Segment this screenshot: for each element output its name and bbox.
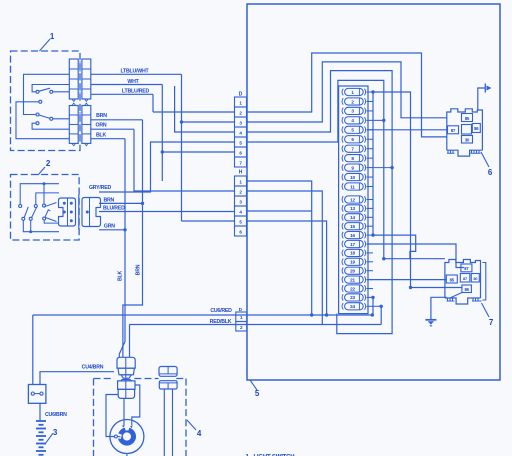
- svg-text:CU6/BRN: CU6/BRN: [45, 412, 67, 418]
- relay 7 pin 87 box: [461, 264, 472, 272]
- comp2 contact b1: [34, 205, 37, 208]
- comp2 blade c: [45, 210, 50, 217]
- svg-text:GRY/RED: GRY/RED: [89, 185, 111, 191]
- svg-text:15: 15: [350, 224, 355, 229]
- wire H2 drop right: [247, 191, 323, 325]
- svg-text:ORN: ORN: [96, 123, 107, 129]
- switch blade S1: [39, 88, 50, 91]
- wire cell4 loop under pins: [247, 71, 393, 334]
- coil divider: [125, 357, 127, 398]
- wire distributor down: [126, 454, 128, 456]
- connector pins 1-24: [342, 89, 343, 96]
- relay 7 outer bracket: [482, 263, 485, 301]
- relay 7 pin 85 box: [446, 275, 457, 283]
- relay 7 right box: [471, 274, 479, 283]
- dist connector lower divider: [167, 383, 169, 389]
- dist connector lower strip: [159, 382, 177, 384]
- distributor terminal: [114, 435, 117, 438]
- ground symbol relay7: [425, 319, 436, 321]
- svg-text:GRN: GRN: [104, 224, 115, 230]
- comp2 contact c2: [43, 217, 46, 220]
- svg-text:BLU/RED: BLU/RED: [103, 206, 125, 212]
- fuse terminal L: [31, 392, 34, 395]
- wire S2 to cell2: [53, 118, 70, 120]
- wire pin5 to relay6: [367, 129, 447, 131]
- comp2 plug divider: [67, 198, 69, 226]
- wire pin23 drop: [372, 297, 374, 315]
- switch contact S3: [36, 122, 39, 125]
- wire pin17 to relay7 87: [367, 244, 464, 268]
- svg-text:18: 18: [350, 251, 355, 256]
- coil neck upper: [121, 375, 131, 378]
- comp2 plug pin dot 3: [63, 211, 66, 214]
- wire LTBLU/RED: [91, 93, 153, 95]
- junction H5-CU6RED: [325, 313, 328, 316]
- wire S1 to cell4: [53, 91, 70, 93]
- wire pole to bottom bus: [16, 102, 69, 139]
- comp2 bottom junction: [29, 230, 32, 233]
- distributor tick 1: [122, 425, 125, 428]
- fuse box: [28, 385, 46, 404]
- dist connector upper strip: [159, 373, 177, 375]
- junction pin4 bus: [382, 119, 385, 122]
- comp2 socket divider: [89, 198, 91, 227]
- wire WHT: [91, 84, 163, 86]
- comp2 top bus 1: [20, 184, 59, 205]
- coil connector tier1: [117, 357, 135, 368]
- junction BRN join: [141, 202, 144, 205]
- ECU box 5 outline: [247, 4, 500, 380]
- wire GRY/RED: [99, 142, 235, 192]
- comp2 link wire 2: [44, 217, 56, 222]
- label 2 leader: [38, 167, 45, 175]
- switch contact S1a: [36, 90, 39, 93]
- wire dist connector down R: [172, 389, 174, 456]
- wire pin9 stub ext: [373, 167, 392, 169]
- connector strip D cells 1-7: [235, 97, 247, 107]
- svg-text:BRN: BRN: [136, 264, 142, 275]
- svg-text:WHT: WHT: [127, 79, 139, 85]
- distributor ring gap left: [117, 433, 122, 439]
- junction pin23-CU6RED: [371, 313, 374, 316]
- wire BLU/RED: [99, 211, 235, 213]
- distributor ring gap top: [125, 426, 130, 430]
- comp2 contact a1: [19, 205, 22, 208]
- relay 6 pin 30 box: [462, 136, 473, 144]
- svg-text:14: 14: [350, 215, 355, 220]
- relay 6 pin 85 box: [462, 114, 473, 122]
- junction pin23 bus: [371, 296, 374, 299]
- label 6 leader: [481, 152, 489, 167]
- wire S3 to cell3: [32, 123, 69, 129]
- svg-text:H: H: [239, 169, 243, 175]
- label 3 leader: [45, 433, 53, 444]
- fuse link: [34, 393, 40, 395]
- wire battery riser: [32, 315, 34, 385]
- relay 7 body outline: [445, 260, 481, 299]
- svg-text:24: 24: [350, 304, 355, 309]
- relay 7 foot right: [472, 298, 482, 301]
- label 5 leader: [250, 380, 257, 390]
- comp2 plug pin dot 1: [63, 202, 66, 205]
- distributor body: [110, 420, 144, 454]
- junction cell6 tap: [161, 150, 164, 153]
- svg-text:BLK: BLK: [118, 271, 124, 282]
- comp2 socket pin dot: [86, 211, 89, 214]
- wire ORN drop to H2: [134, 129, 235, 191]
- switch unit 1 dashed box: [11, 51, 81, 151]
- wire BRN lower: [99, 202, 143, 204]
- wire H1 drop right: [247, 181, 312, 315]
- label 1 leader: [40, 39, 51, 51]
- wire coil to distributor: [123, 398, 125, 425]
- switch contact S1b: [50, 90, 53, 93]
- svg-text:RED/BLK: RED/BLK: [210, 319, 232, 325]
- wire comp1 cell2 to switch2: [24, 74, 70, 114]
- relay 7 foot left: [447, 298, 455, 301]
- relay 6 pin 87 box: [448, 126, 459, 134]
- wire fuse to battery: [39, 403, 41, 421]
- comp2 link wire 1: [44, 203, 56, 207]
- wire BRN vertical: [123, 120, 143, 357]
- connector D12 cell1: [236, 312, 247, 322]
- label 7 leader: [482, 303, 490, 317]
- wire relay7 ground: [431, 297, 447, 319]
- wire drop to cell2: [152, 94, 154, 112]
- svg-text:BLK: BLK: [96, 133, 107, 139]
- dist connector upper divider: [167, 367, 169, 374]
- svg-text:19: 19: [350, 260, 355, 265]
- comp2 bottom bus: [23, 220, 59, 231]
- wire cell6 row: [162, 151, 234, 153]
- connector strip H cells 1-6: [235, 176, 247, 186]
- battery 3: [36, 420, 46, 422]
- wire RED/BLK drop: [129, 325, 131, 358]
- switch contact S2b: [50, 117, 53, 120]
- relay 6 foot left: [447, 150, 455, 153]
- wire pin24 stub ext: [373, 305, 381, 307]
- wire cell4 row: [175, 86, 235, 132]
- svg-text:22: 22: [350, 286, 355, 291]
- junction cell3 row: [180, 120, 183, 123]
- wire ORN: [91, 128, 134, 130]
- junction H1-CU6RED: [310, 313, 313, 316]
- wire cell3 row: [182, 121, 235, 123]
- relay 6 body outline: [447, 109, 483, 150]
- svg-text:BRN: BRN: [103, 197, 114, 203]
- comp2 contact c1: [43, 204, 46, 207]
- wire GRN: [99, 229, 125, 231]
- wire H5 row left: [182, 220, 235, 222]
- comp2 plug pin dot 4: [70, 211, 73, 214]
- svg-text:16: 16: [350, 233, 355, 238]
- svg-text:20: 20: [350, 269, 355, 274]
- wire pin21 to relay7 85: [367, 279, 447, 281]
- wire BRN upper: [91, 119, 143, 121]
- switch blade S2: [39, 115, 50, 118]
- wire 86 feed: [411, 287, 463, 289]
- distributor tick 2: [130, 426, 133, 429]
- pin column box: [339, 86, 368, 314]
- wire drop to H5: [181, 74, 183, 221]
- coil neck lower: [121, 379, 132, 381]
- svg-text:12: 12: [350, 197, 355, 202]
- wire CU6/RED row: [33, 314, 373, 316]
- wire relay6 ground riser: [478, 88, 486, 110]
- junction pin16 row: [371, 233, 374, 236]
- distributor cam ring: [118, 427, 136, 445]
- wire comp1 switch1 feed: [32, 85, 69, 92]
- comp2 blade a: [24, 207, 28, 218]
- wire pin1 bus down: [372, 92, 374, 235]
- junction GRN join: [123, 228, 126, 231]
- wire cell5 to relay7 row: [247, 80, 384, 258]
- switch contact S2a: [36, 113, 39, 116]
- svg-text:BRN: BRN: [96, 113, 107, 119]
- wire coil side loop: [132, 385, 140, 426]
- comp2 blade b: [32, 207, 37, 217]
- wire RED/BLK rise: [380, 306, 382, 324]
- wire BLK vertical: [119, 139, 125, 358]
- label 4 leader: [187, 420, 196, 430]
- wire coil left loop: [106, 395, 118, 437]
- wire H5 drop right: [247, 221, 327, 315]
- connector block 1B: [69, 106, 78, 144]
- relay 6 center box: [462, 125, 472, 135]
- comp2 bus junction: [43, 182, 46, 185]
- switch pole contact: [39, 100, 42, 103]
- comp2 mating face: [78, 195, 80, 230]
- relay 7 diagonal link: [450, 293, 462, 299]
- coil connector tier4: [118, 389, 134, 398]
- comp2 top bus 2: [36, 193, 59, 204]
- wire relay7 left feed: [384, 258, 445, 260]
- wire cell2 to relay6 pin30: [247, 53, 447, 137]
- wire cell3 to relay6 pin85: [247, 62, 447, 122]
- dist connector lower: [159, 381, 177, 389]
- dist connector upper: [159, 367, 177, 377]
- wire pin4 stub ext: [373, 119, 384, 121]
- wire pin16 step to relay7: [373, 235, 416, 259]
- coil connector tier3: [118, 381, 135, 390]
- wire RED/BLK row: [130, 324, 382, 326]
- wire drop WHT to H1: [161, 85, 163, 182]
- svg-text:17: 17: [350, 242, 355, 247]
- wire pin1 row to 86: [373, 92, 411, 288]
- ground arrowhead: [487, 86, 492, 91]
- distributor unit 4 dashed box: [94, 379, 187, 456]
- relay 6 pin 86 box: [472, 124, 480, 133]
- svg-text:10: 10: [350, 175, 355, 180]
- relay 6 foot right: [471, 150, 481, 153]
- svg-text:21: 21: [350, 277, 355, 282]
- svg-text:13: 13: [350, 206, 355, 211]
- distributor terminal arm: [117, 436, 120, 438]
- ground crossbar: [484, 84, 486, 93]
- svg-text:CU6/RED: CU6/RED: [210, 308, 232, 314]
- comp2 contact a2: [22, 217, 25, 220]
- wire BLK upper: [91, 138, 125, 140]
- connector block 1A: [69, 59, 78, 99]
- svg-text:CU4/BRN: CU4/BRN: [82, 364, 104, 370]
- comp2 socket body: [82, 198, 101, 227]
- svg-text:LTBLU/WHT: LTBLU/WHT: [120, 69, 149, 75]
- comp2 plug pin dot 2: [70, 202, 73, 205]
- junction pin24 bus: [380, 305, 383, 308]
- wire dist connector down L: [163, 389, 165, 456]
- coil connector tier2: [118, 368, 134, 375]
- relay 7 mid box: [460, 274, 470, 283]
- fuse terminal R: [40, 392, 43, 395]
- junction 86 row: [409, 286, 412, 289]
- junction pin1 bus: [371, 90, 374, 93]
- svg-text:LTBLU/RED: LTBLU/RED: [122, 89, 150, 95]
- comp2 plug body: [59, 198, 76, 226]
- comp2 feed leg 3: [43, 184, 45, 204]
- wire LTBLU/WHT: [91, 73, 182, 75]
- relay 7 pin 86 box: [462, 285, 472, 293]
- junction pin9 bus: [390, 166, 393, 169]
- comp2 switch c out: [44, 220, 59, 223]
- connector D12 cell2: [236, 322, 247, 332]
- switch unit 2 dashed box: [11, 175, 80, 241]
- comp2 plug pin dot 5: [70, 219, 73, 222]
- comp2 contact b2: [29, 217, 32, 220]
- junction pin18 row: [382, 257, 385, 260]
- wire cell2 row: [153, 111, 235, 113]
- wire H4 row right: [247, 210, 312, 212]
- wire CU4/BRN: [40, 372, 114, 385]
- svg-text:11: 11: [350, 184, 355, 189]
- svg-text:23: 23: [350, 295, 355, 300]
